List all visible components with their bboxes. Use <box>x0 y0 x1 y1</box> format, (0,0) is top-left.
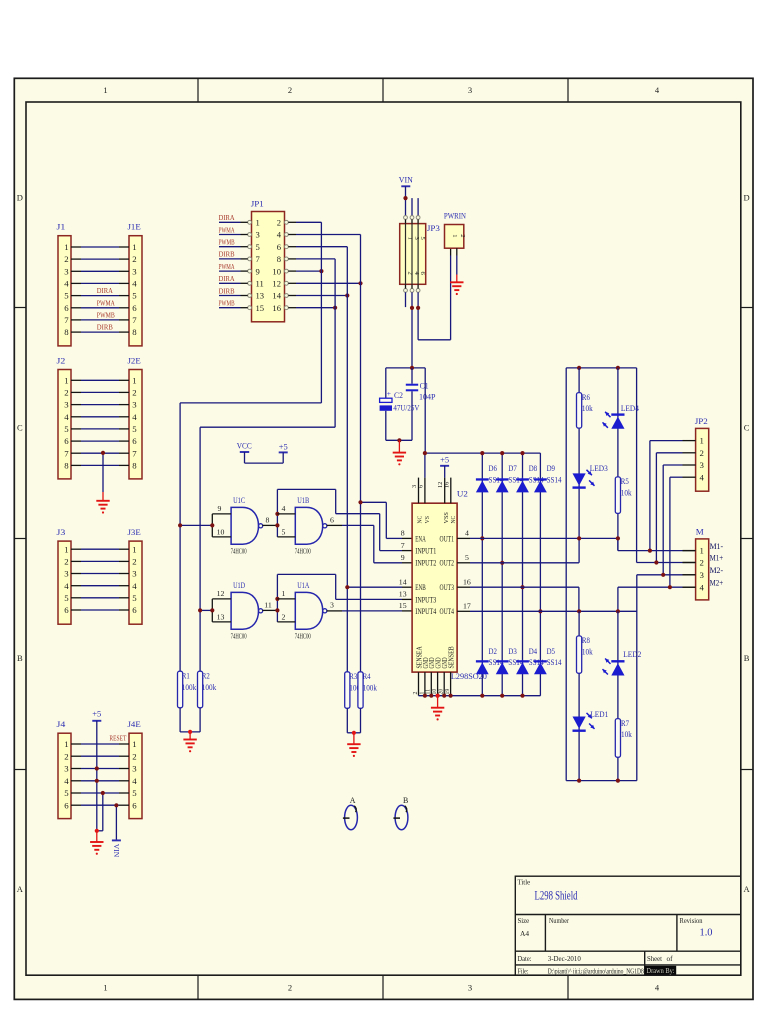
wire U2 ground bus <box>419 695 541 697</box>
svg-text:7: 7 <box>401 541 405 550</box>
svg-text:OUT1: OUT1 <box>440 534 454 543</box>
svg-text:9: 9 <box>256 266 260 276</box>
svg-text:4: 4 <box>132 776 137 786</box>
svg-text:DIRA: DIRA <box>97 286 113 295</box>
wire J1 pin8 to J1E pin8 <box>71 331 81 333</box>
svg-text:M1+: M1+ <box>710 554 724 563</box>
svg-text:9: 9 <box>401 553 405 562</box>
svg-text:Number: Number <box>549 918 570 925</box>
junction R5/OUT1 <box>616 536 620 540</box>
wire OUT4 <box>470 610 637 612</box>
svg-text:LED1: LED1 <box>590 709 608 719</box>
svg-text:2: 2 <box>132 751 136 761</box>
svg-text:M: M <box>696 527 704 537</box>
svg-text:5: 5 <box>132 291 137 301</box>
svg-text:INPUT4: INPUT4 <box>415 607 436 616</box>
svg-text:R6: R6 <box>582 393 590 402</box>
svg-text:10: 10 <box>217 528 225 537</box>
svg-text:DIRB: DIRB <box>219 286 235 295</box>
svg-text:A: A <box>17 884 24 894</box>
svg-text:PWMB: PWMB <box>97 310 115 319</box>
svg-text:3: 3 <box>132 400 137 410</box>
svg-text:1: 1 <box>132 739 136 749</box>
wire JP1 pin 2 <box>288 221 296 223</box>
wire J1 pin6 to J1E pin6 <box>71 307 81 309</box>
junction VS rail/diode <box>480 451 484 455</box>
junction J4 pin5 <box>101 791 105 795</box>
svg-text:8: 8 <box>132 327 137 337</box>
wire M2- <box>637 574 683 576</box>
svg-text:16: 16 <box>443 482 450 488</box>
svg-text:M1-: M1- <box>710 542 724 551</box>
svg-text:1: 1 <box>64 375 68 385</box>
svg-text:A4: A4 <box>520 929 529 938</box>
wire stub OUT4 <box>457 610 470 612</box>
wire R8-LED1 column <box>578 611 580 780</box>
junction PWMB bus/ENB <box>345 585 349 589</box>
svg-text:6: 6 <box>132 800 137 810</box>
svg-text:R4: R4 <box>363 672 371 681</box>
wire JP1 pin 16 <box>288 307 296 309</box>
U2 pin 1 GND <box>424 672 426 696</box>
wire diode column x=502.2 <box>501 453 503 696</box>
svg-text:R3: R3 <box>349 672 357 681</box>
wire M1- <box>618 550 683 552</box>
junction U1D input tie <box>210 608 214 612</box>
connector J4E <box>129 733 142 818</box>
diode D5 SS14 <box>534 660 547 662</box>
svg-text:5: 5 <box>256 242 260 252</box>
ground (PWRIN) <box>450 282 463 290</box>
svg-text:100k: 100k <box>363 683 378 692</box>
svg-text:20: 20 <box>439 689 445 695</box>
svg-text:R7: R7 <box>621 719 629 728</box>
wire OUT1 <box>470 537 618 539</box>
svg-text:PWMB: PWMB <box>219 238 235 247</box>
wire bus DIRA/PWMA vertical (x=321) <box>320 222 322 403</box>
svg-text:6: 6 <box>132 436 137 446</box>
svg-text:+5: +5 <box>92 709 101 719</box>
svg-text:5: 5 <box>64 788 69 798</box>
svg-text:M2+: M2+ <box>710 578 724 587</box>
wire stub DIRB JP1 pin 13 <box>219 295 241 297</box>
svg-text:8: 8 <box>277 254 281 264</box>
wire diode VS rail <box>425 452 541 454</box>
junction gnd bus/diode <box>520 694 524 698</box>
wire to ground (U2) <box>436 694 440 698</box>
diode D9 SS14 <box>534 478 547 480</box>
svg-text:10k: 10k <box>582 404 594 413</box>
junction J2 pin7 <box>101 451 105 455</box>
svg-text:D3: D3 <box>508 647 516 656</box>
junction U1C.8/U1B.5 <box>275 523 279 527</box>
gate U1C 74HC00 NAND <box>231 507 258 544</box>
svg-text:L298 Shield: L298 Shield <box>535 889 579 903</box>
svg-text:J1: J1 <box>57 222 66 232</box>
wire J3 pin1 to J3E pin1 <box>71 548 81 550</box>
wire J4 pin6 to VIN <box>115 805 117 840</box>
svg-text:+: + <box>387 389 391 398</box>
wire R6-LED3 column <box>578 368 580 563</box>
wire left vertical LED blocks <box>565 368 567 781</box>
junction VS rail/diode <box>520 451 524 455</box>
svg-text:7: 7 <box>132 448 137 458</box>
resistor R1 100k <box>178 671 183 708</box>
svg-text:NC: NC <box>450 515 457 523</box>
svg-text:2: 2 <box>132 388 136 398</box>
wire stub DIRB JP1 pin 7 <box>219 258 241 260</box>
diode D8 SS14 <box>516 478 529 480</box>
svg-text:M2-: M2- <box>710 566 724 575</box>
svg-text:D7: D7 <box>508 464 516 473</box>
svg-text:DIRB: DIRB <box>219 250 235 259</box>
ground (C1 C2) <box>393 453 406 461</box>
svg-text:INPUT1: INPUT1 <box>415 547 436 556</box>
svg-text:PWMB: PWMB <box>219 299 235 308</box>
svg-text:1: 1 <box>64 739 68 749</box>
svg-text:2: 2 <box>700 558 704 568</box>
junction rail/R6 <box>577 366 581 370</box>
wire rail to U1C inputs / R1 <box>179 403 181 671</box>
LED LED2 <box>611 660 624 662</box>
svg-text:1: 1 <box>451 234 458 237</box>
junction JP1 pin 14 bus <box>345 293 349 297</box>
wire INPUT3 feed <box>336 598 402 600</box>
svg-text:8: 8 <box>64 461 69 471</box>
svg-text:74HC00: 74HC00 <box>295 547 311 556</box>
ground (J4) <box>90 842 103 850</box>
wire capacitor top rail <box>386 367 425 369</box>
U2 pin 11 GND <box>430 672 432 696</box>
svg-text:J1E: J1E <box>128 222 141 232</box>
wire loop down to INPUT1 feed <box>335 489 337 513</box>
svg-text:ENA: ENA <box>415 534 426 543</box>
junction JP1 pin 12 bus <box>358 281 362 285</box>
wire stub DIRA JP1 pin 1 <box>219 221 241 223</box>
junction gnd bus/diode <box>480 694 484 698</box>
U2 pin 19 SENSEB <box>450 672 452 696</box>
wire JP3 column 3 (top) <box>417 198 419 216</box>
junction VS rail <box>423 451 427 455</box>
svg-text:3: 3 <box>700 570 705 580</box>
svg-text:2: 2 <box>700 448 704 458</box>
junction LED3/OUT1 <box>577 536 581 540</box>
wire J3 pin2 to J3E pin2 <box>71 560 81 562</box>
svg-text:Drawn By:: Drawn By: <box>647 968 675 975</box>
wire stub OUT2 <box>457 562 470 564</box>
U2 pin 20 GND <box>443 672 445 696</box>
svg-text:10k: 10k <box>621 489 633 498</box>
svg-text:2: 2 <box>132 557 136 567</box>
svg-text:Date:: Date: <box>518 955 532 963</box>
svg-text:100k: 100k <box>202 683 217 692</box>
svg-text:J2: J2 <box>57 355 66 365</box>
svg-text:15: 15 <box>399 601 407 610</box>
svg-text:PWMA: PWMA <box>97 298 115 307</box>
wire stub PWMB JP1 pin 15 <box>219 307 241 309</box>
wire VCC to +5 <box>244 452 246 463</box>
svg-text:PWMA: PWMA <box>219 225 235 234</box>
svg-text:4: 4 <box>64 581 69 591</box>
resistor R7 10k <box>615 719 620 758</box>
svg-text:J2E: J2E <box>128 355 141 365</box>
wire LED rail lower <box>566 780 637 782</box>
wire VS to rail <box>424 453 426 478</box>
svg-text:D6: D6 <box>489 464 497 473</box>
svg-text:1: 1 <box>132 544 136 554</box>
wire U1A feedback loop top <box>277 573 335 575</box>
svg-text:1: 1 <box>64 242 68 252</box>
svg-text:D: D <box>17 193 23 203</box>
svg-text:4: 4 <box>64 279 69 289</box>
svg-text:OUT4: OUT4 <box>440 607 454 616</box>
junction JP1 pin 10 bus <box>319 269 323 273</box>
junction VS rail/diode <box>500 451 504 455</box>
svg-text:LED4: LED4 <box>621 403 640 413</box>
wire +5 to J4 pins 3,4 <box>96 721 98 831</box>
svg-text:JP1: JP1 <box>251 199 264 209</box>
wire bus PWMA/DIRA vertical (x=360) <box>360 235 362 672</box>
svg-text:6: 6 <box>330 516 334 525</box>
wire PWRIN pin2 to ground <box>456 248 458 255</box>
svg-text:4: 4 <box>64 776 69 786</box>
title block <box>515 876 741 975</box>
svg-text:1.0: 1.0 <box>700 927 713 939</box>
svg-text:74HC00: 74HC00 <box>231 632 247 641</box>
wire JP3 pin2 down <box>405 292 407 307</box>
svg-text:2: 2 <box>277 218 281 228</box>
wire stub OUT3 <box>457 586 470 588</box>
svg-text:A: A <box>350 796 356 805</box>
junction cap rail / JP3 feed <box>410 366 414 370</box>
svg-text:U1C: U1C <box>233 495 245 505</box>
svg-text:R8: R8 <box>582 636 590 645</box>
junction gnd bus <box>423 694 427 698</box>
svg-text:3: 3 <box>132 266 137 276</box>
resistor R5 10k <box>615 477 620 514</box>
svg-text:3: 3 <box>64 764 69 774</box>
svg-text:B: B <box>17 653 23 663</box>
junction rail/U1C <box>178 523 182 527</box>
diode D2 SS14 <box>476 660 489 662</box>
svg-text:C1: C1 <box>420 381 429 390</box>
svg-text:DIRB: DIRB <box>97 323 113 332</box>
gate U1D 74HC00 NAND <box>231 592 258 629</box>
svg-text:1: 1 <box>64 544 68 554</box>
wire R3/R4 to ground <box>346 708 348 733</box>
svg-text:SENSEB: SENSEB <box>448 646 456 668</box>
svg-text:PWRIN: PWRIN <box>444 211 466 220</box>
connector JP2 <box>696 428 709 491</box>
capacitor C2 47U/25V <box>385 368 387 398</box>
U2 pin 10 GND <box>437 672 439 696</box>
wire J3 pin4 to J3E pin4 <box>71 585 81 587</box>
wire rail to U1C inputs <box>180 524 212 526</box>
wire J3 pin6 to J3E pin6 <box>71 609 81 611</box>
svg-text:74HC00: 74HC00 <box>295 632 311 641</box>
svg-text:6: 6 <box>64 436 69 446</box>
wire J2 pin5 to J2E pin5 <box>71 428 81 430</box>
junction lower rail/LED1 <box>577 779 581 783</box>
svg-text:+5: +5 <box>440 454 449 464</box>
connector J2E <box>129 370 142 479</box>
wire J1 pin3 to J1E pin3 <box>71 270 81 272</box>
svg-text:3: 3 <box>132 764 137 774</box>
resistor R4 100k <box>358 672 363 709</box>
wire to ground (J4) <box>95 829 99 833</box>
wire JP3 pin6 to PWRIN <box>417 292 419 340</box>
wire bus DIRB/PWMB vertical (x=335) <box>334 259 336 427</box>
wire ENA feed from PWMA bus <box>361 501 387 503</box>
connector JP3 <box>400 224 426 285</box>
junction JP2/M pin3 <box>661 573 665 577</box>
wire U1B.6 to U2 INPUT2 <box>342 524 374 526</box>
svg-text:19: 19 <box>445 689 451 695</box>
wire J4 pin6 to J4E pin6 <box>71 804 81 806</box>
svg-text:14: 14 <box>272 291 281 301</box>
connector J3E <box>129 541 142 624</box>
svg-text:JP3: JP3 <box>427 224 440 233</box>
gate U1A 74HC00 NAND <box>295 592 322 629</box>
wire capacitor bottom rail <box>386 439 412 441</box>
junction U1A pin1 node <box>275 597 279 601</box>
wire U1A.3 to U2 INPUT4 <box>342 610 402 612</box>
svg-text:Revision: Revision <box>680 918 704 925</box>
wire JP3 pin4 to capacitors <box>411 292 413 368</box>
svg-text:16: 16 <box>272 303 281 313</box>
svg-text:2: 2 <box>288 983 292 993</box>
junction OUT4/LED2 <box>616 609 620 613</box>
jumper B <box>395 805 408 829</box>
svg-text:J4E: J4E <box>128 719 141 729</box>
svg-text:U1B: U1B <box>297 495 309 505</box>
svg-text:4: 4 <box>132 581 137 591</box>
wire JP1 pin 4 <box>288 234 296 236</box>
U2 pin NC (top right) <box>450 478 452 504</box>
wire JP1 pin 10 <box>288 270 296 272</box>
ground (R3 R4) <box>347 744 360 752</box>
svg-text:5: 5 <box>64 424 69 434</box>
junction gnd bus <box>436 694 440 698</box>
jumper A <box>345 805 358 829</box>
svg-text:8: 8 <box>64 327 69 337</box>
wire JP2 pin2 to M pin2 <box>656 452 682 454</box>
junction gnd bus <box>449 694 453 698</box>
svg-text:INPUT2: INPUT2 <box>415 559 436 568</box>
power VIN symbol (J4) <box>112 839 121 841</box>
svg-text:13: 13 <box>256 291 265 301</box>
wire VIN to JP3 pin1 <box>405 186 407 215</box>
wire J1 pin1 to J1E pin1 <box>71 246 81 248</box>
wire J2 pin6 to J2E pin6 <box>71 440 81 442</box>
wire JP2 pin1 to M pin1 <box>650 440 683 442</box>
svg-text:File:: File: <box>518 967 529 975</box>
wire R1/R2 to ground <box>179 708 181 732</box>
svg-text:10: 10 <box>432 689 438 695</box>
ground (U2) <box>431 708 444 716</box>
svg-text:2: 2 <box>64 254 68 264</box>
svg-text:U1D: U1D <box>233 580 245 590</box>
svg-text:NC: NC <box>416 515 423 523</box>
svg-text:6: 6 <box>277 242 282 252</box>
wire INPUT1 feed <box>336 513 380 515</box>
wire right vertical to M2- <box>636 575 638 781</box>
svg-text:3-Dec-2010: 3-Dec-2010 <box>548 954 581 963</box>
svg-text:INPUT3: INPUT3 <box>415 595 436 604</box>
diode D3 SS14 <box>496 660 509 662</box>
svg-text:D8: D8 <box>529 464 537 473</box>
wire J2 pin7 to J2E pin7 <box>71 452 81 454</box>
wire M2+ <box>618 586 683 588</box>
wire J2 pin7 to ground <box>102 453 104 492</box>
svg-text:1: 1 <box>407 237 414 240</box>
ground (J2 pin7) <box>96 501 109 509</box>
wire J3 pin5 to J3E pin5 <box>71 597 81 599</box>
svg-text:13: 13 <box>217 613 225 622</box>
wire JP1 pin 8 <box>288 258 296 260</box>
svg-text:1: 1 <box>256 218 260 228</box>
svg-text:LED3: LED3 <box>590 463 608 473</box>
wire JP2 pin4 to M pin4 <box>670 476 683 478</box>
svg-text:3: 3 <box>468 85 472 95</box>
wire stub PWMA JP1 pin 9 <box>219 270 241 272</box>
wire J2 pin2 to J2E pin2 <box>71 391 81 393</box>
svg-text:J3E: J3E <box>128 527 141 537</box>
svg-text:7: 7 <box>64 448 69 458</box>
wire J4 pin1 to J4E pin1 <box>71 743 81 745</box>
junction J4 pin3 <box>95 766 99 770</box>
svg-text:ENB: ENB <box>415 583 426 592</box>
connector J4 <box>58 733 71 818</box>
svg-text:5: 5 <box>132 788 137 798</box>
resistor R2 100k <box>198 671 203 708</box>
svg-text:SS14: SS14 <box>547 658 563 667</box>
connector J3 <box>58 541 71 624</box>
svg-text:VIN: VIN <box>399 175 414 185</box>
IC U2 L298SO20 <box>412 503 457 672</box>
svg-text:D4: D4 <box>529 647 538 656</box>
wire rail to U1D inputs / R2 <box>199 427 201 671</box>
wire J4 pin3 to J4E pin3 <box>71 768 81 770</box>
svg-text:JP2: JP2 <box>695 416 708 426</box>
svg-text:7: 7 <box>256 254 261 264</box>
wire rail to U1D inputs <box>200 609 212 611</box>
wire JP1 pin 12 <box>288 282 296 284</box>
junction OUT2/diodes <box>500 561 504 565</box>
junction JP3 pin6 <box>416 306 420 310</box>
wire LED rail upper <box>566 367 636 369</box>
svg-text:U2: U2 <box>457 489 468 499</box>
svg-text:5: 5 <box>64 291 69 301</box>
connector J2 <box>58 370 71 479</box>
wire JP1 pin 14 <box>288 295 296 297</box>
wire J4 pin5 to J4E pin5 <box>71 792 81 794</box>
svg-text:B: B <box>403 796 408 805</box>
wire J2 pin8 to J2E pin8 <box>71 464 81 466</box>
junction JP3 pin4 <box>410 306 414 310</box>
wire J3 pin3 to J3E pin3 <box>71 573 81 575</box>
ground (R1 R2) <box>183 740 196 748</box>
svg-text:D9: D9 <box>547 464 555 473</box>
svg-text:1: 1 <box>282 589 286 598</box>
svg-text:C: C <box>17 423 23 433</box>
svg-text:7: 7 <box>132 315 137 325</box>
svg-text:R2: R2 <box>202 672 210 681</box>
svg-text:D: D <box>744 193 750 203</box>
svg-text:74HC00: 74HC00 <box>231 547 247 556</box>
wire LED4-R5 column <box>617 368 619 551</box>
svg-text:7: 7 <box>64 315 69 325</box>
